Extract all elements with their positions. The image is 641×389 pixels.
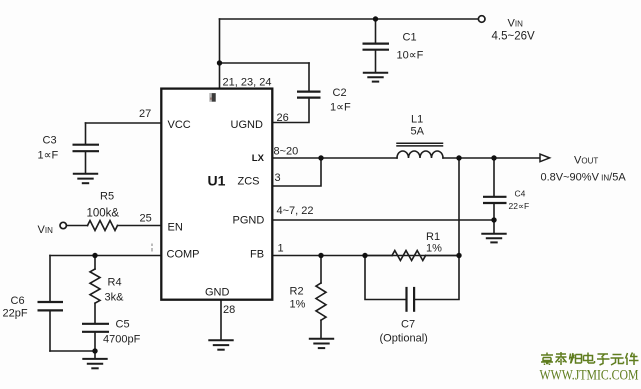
svg-text:C2: C2 bbox=[333, 87, 347, 99]
svg-text:100k&: 100k& bbox=[87, 208, 120, 220]
svg-text:8~20: 8~20 bbox=[274, 146, 299, 158]
svg-text:(Optional): (Optional) bbox=[380, 333, 428, 345]
svg-text:PGND: PGND bbox=[233, 215, 265, 227]
svg-text:25: 25 bbox=[140, 213, 152, 225]
svg-text:C7: C7 bbox=[401, 319, 415, 331]
svg-text:U1: U1 bbox=[208, 173, 226, 189]
svg-text:FB: FB bbox=[250, 249, 264, 261]
svg-text:COMP: COMP bbox=[167, 249, 200, 261]
svg-text:EN: EN bbox=[168, 222, 183, 234]
svg-text:VIN: VIN bbox=[38, 224, 54, 236]
svg-text:LX: LX bbox=[252, 153, 265, 164]
svg-text:4700pF: 4700pF bbox=[103, 334, 141, 346]
svg-text:C1: C1 bbox=[403, 32, 417, 44]
svg-text:0.8V~90%V IN/5A: 0.8V~90%V IN/5A bbox=[541, 172, 627, 184]
svg-text:4.5~26V: 4.5~26V bbox=[492, 31, 535, 43]
svg-text:28: 28 bbox=[223, 304, 235, 316]
svg-text:R4: R4 bbox=[108, 277, 122, 289]
svg-text:1∝F: 1∝F bbox=[38, 150, 59, 162]
svg-text:VOUT: VOUT bbox=[574, 155, 598, 167]
svg-text:26: 26 bbox=[277, 112, 289, 124]
svg-text:UGND: UGND bbox=[231, 119, 263, 131]
svg-text:R5: R5 bbox=[100, 191, 114, 203]
svg-text:L1: L1 bbox=[411, 114, 423, 126]
svg-text:1%: 1% bbox=[426, 243, 442, 255]
svg-text:C4: C4 bbox=[515, 189, 526, 199]
svg-text:R1: R1 bbox=[426, 231, 440, 243]
svg-text:1: 1 bbox=[278, 243, 284, 255]
svg-text:ZCS: ZCS bbox=[238, 176, 260, 188]
svg-text:4~7, 22: 4~7, 22 bbox=[277, 205, 314, 217]
svg-text:22pF: 22pF bbox=[3, 308, 28, 320]
svg-text:VIN: VIN bbox=[508, 18, 524, 30]
svg-text:3: 3 bbox=[275, 172, 281, 184]
svg-text:C6: C6 bbox=[11, 295, 25, 307]
svg-text:21, 23, 24: 21, 23, 24 bbox=[223, 77, 272, 89]
svg-text:R2: R2 bbox=[290, 286, 304, 298]
svg-text:22∝F: 22∝F bbox=[509, 201, 530, 211]
svg-text:C5: C5 bbox=[116, 319, 130, 331]
svg-text:1%: 1% bbox=[290, 299, 306, 311]
svg-text:3k&: 3k& bbox=[105, 292, 125, 304]
svg-text:WWW.JTMIC.COM: WWW.JTMIC.COM bbox=[540, 368, 639, 384]
svg-text:1∝F: 1∝F bbox=[330, 102, 351, 114]
svg-text:C3: C3 bbox=[43, 135, 57, 147]
svg-text:5A: 5A bbox=[411, 126, 425, 138]
svg-text:GND: GND bbox=[205, 287, 230, 299]
svg-text:VCC: VCC bbox=[168, 119, 191, 131]
svg-text:10∝F: 10∝F bbox=[397, 50, 424, 62]
svg-text:27: 27 bbox=[139, 108, 151, 120]
